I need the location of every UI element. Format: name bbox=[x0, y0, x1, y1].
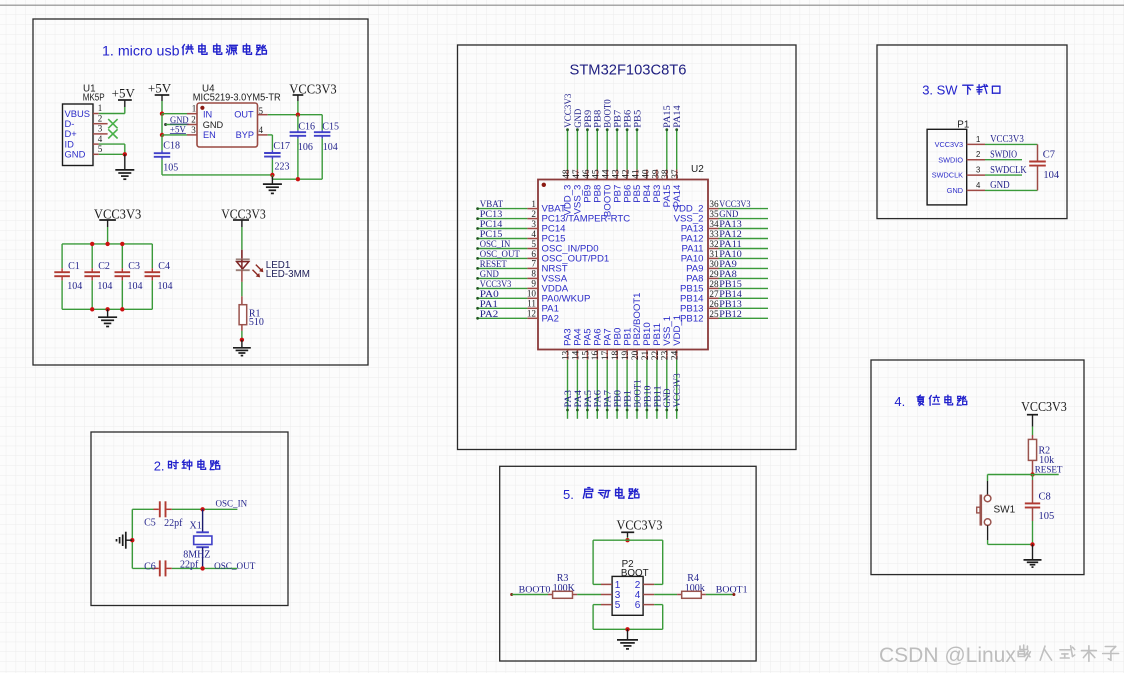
svg-text:CSDN @Linux: CSDN @Linux bbox=[879, 644, 1016, 667]
svg-text:GND: GND bbox=[719, 210, 738, 220]
svg-text:MK5P: MK5P bbox=[83, 92, 105, 103]
svg-text:15: 15 bbox=[581, 350, 591, 360]
svg-text:20: 20 bbox=[631, 350, 641, 360]
svg-text:32: 32 bbox=[709, 239, 719, 249]
svg-text:PB7: PB7 bbox=[614, 110, 624, 128]
svg-text:2.: 2. bbox=[154, 458, 165, 473]
svg-text:104: 104 bbox=[158, 281, 173, 292]
svg-text:PA8: PA8 bbox=[719, 270, 737, 280]
svg-text:EN: EN bbox=[203, 130, 216, 140]
svg-text:104: 104 bbox=[67, 281, 82, 292]
svg-text:16: 16 bbox=[591, 350, 601, 360]
svg-text:1. micro usb: 1. micro usb bbox=[102, 44, 180, 59]
svg-text:BYP: BYP bbox=[236, 130, 254, 140]
svg-text:PA5: PA5 bbox=[584, 390, 594, 408]
svg-text:34: 34 bbox=[709, 219, 719, 229]
svg-text:C5: C5 bbox=[144, 517, 156, 528]
svg-text:8: 8 bbox=[531, 269, 536, 279]
svg-text:PB15: PB15 bbox=[719, 280, 742, 290]
svg-text:PA10: PA10 bbox=[719, 250, 742, 260]
svg-text:+5V: +5V bbox=[112, 86, 136, 101]
svg-text:PB1: PB1 bbox=[624, 390, 634, 408]
svg-text:105: 105 bbox=[1039, 511, 1055, 522]
svg-text:1: 1 bbox=[976, 135, 980, 144]
svg-text:GND: GND bbox=[990, 180, 1010, 191]
svg-text:5: 5 bbox=[615, 600, 621, 611]
svg-text:35: 35 bbox=[709, 209, 719, 219]
svg-text:11: 11 bbox=[527, 299, 536, 309]
svg-text:STM32F103C8T6: STM32F103C8T6 bbox=[570, 63, 687, 79]
svg-text:GND: GND bbox=[65, 149, 86, 160]
svg-text:104: 104 bbox=[128, 281, 143, 292]
svg-text:29: 29 bbox=[709, 269, 719, 279]
svg-text:VCC3V3: VCC3V3 bbox=[289, 81, 337, 96]
svg-text:2: 2 bbox=[98, 113, 103, 123]
svg-text:C8: C8 bbox=[1039, 491, 1051, 502]
svg-text:PB11: PB11 bbox=[653, 385, 663, 407]
svg-text:PA2: PA2 bbox=[542, 313, 559, 324]
svg-text:33: 33 bbox=[709, 229, 719, 239]
svg-text:C6: C6 bbox=[144, 561, 156, 572]
svg-text:PB0: PB0 bbox=[614, 390, 624, 408]
svg-text:4: 4 bbox=[976, 181, 981, 190]
svg-text:VCC3V3: VCC3V3 bbox=[935, 140, 963, 149]
svg-text:+5V: +5V bbox=[170, 125, 186, 135]
svg-text:BOOT0: BOOT0 bbox=[604, 99, 614, 128]
svg-text:30: 30 bbox=[709, 259, 719, 269]
svg-text:PA3: PA3 bbox=[564, 390, 574, 408]
svg-text:PA1: PA1 bbox=[480, 300, 498, 310]
svg-text:14: 14 bbox=[571, 350, 581, 360]
svg-text:VCC3V3: VCC3V3 bbox=[480, 280, 512, 290]
svg-text:IN: IN bbox=[203, 109, 212, 119]
svg-text:17: 17 bbox=[601, 350, 611, 360]
svg-text:48: 48 bbox=[562, 169, 572, 179]
svg-text:1: 1 bbox=[98, 103, 103, 113]
svg-text:RESET: RESET bbox=[480, 260, 507, 270]
svg-text:PC15: PC15 bbox=[480, 230, 503, 240]
svg-text:5: 5 bbox=[531, 239, 536, 249]
svg-text:26: 26 bbox=[709, 299, 719, 309]
svg-text:3: 3 bbox=[976, 166, 980, 175]
svg-text:PB6: PB6 bbox=[624, 110, 634, 128]
svg-text:PB13: PB13 bbox=[719, 300, 742, 310]
svg-text:C2: C2 bbox=[98, 261, 110, 272]
svg-text:28: 28 bbox=[709, 279, 719, 289]
svg-text:GND: GND bbox=[663, 388, 673, 407]
svg-text:23: 23 bbox=[661, 350, 671, 360]
svg-text:PB9: PB9 bbox=[584, 110, 594, 128]
svg-text:VCC3V3: VCC3V3 bbox=[673, 373, 683, 407]
svg-text:OSC_OUT: OSC_OUT bbox=[480, 250, 520, 260]
svg-text:22pf: 22pf bbox=[164, 518, 183, 529]
svg-text:X1: X1 bbox=[190, 520, 202, 531]
svg-text:PA14: PA14 bbox=[672, 184, 683, 207]
svg-text:7: 7 bbox=[531, 259, 536, 269]
svg-text:106: 106 bbox=[298, 142, 313, 153]
svg-text:PB5: PB5 bbox=[633, 110, 643, 128]
svg-text:C18: C18 bbox=[163, 141, 180, 152]
svg-text:3: 3 bbox=[98, 124, 103, 134]
svg-text:13: 13 bbox=[561, 350, 571, 360]
svg-text:3: 3 bbox=[191, 125, 196, 135]
svg-text:45: 45 bbox=[592, 169, 602, 179]
svg-text:VDD_1: VDD_1 bbox=[672, 315, 683, 346]
svg-text:PA9: PA9 bbox=[719, 260, 737, 270]
svg-text:C3: C3 bbox=[128, 261, 140, 272]
svg-text:37: 37 bbox=[671, 169, 681, 179]
svg-text:PA4: PA4 bbox=[574, 390, 584, 408]
svg-text:3. SW: 3. SW bbox=[922, 83, 958, 98]
svg-text:12: 12 bbox=[527, 309, 537, 319]
svg-text:OSC_IN: OSC_IN bbox=[480, 240, 511, 250]
svg-text:PA15: PA15 bbox=[663, 105, 673, 128]
svg-text:GND: GND bbox=[203, 120, 224, 130]
svg-text:SWDCLK: SWDCLK bbox=[990, 165, 1027, 176]
svg-text:PA2: PA2 bbox=[480, 310, 499, 320]
svg-text:VCC3V3: VCC3V3 bbox=[719, 200, 750, 210]
svg-text:BOOT1: BOOT1 bbox=[716, 584, 748, 595]
svg-text:47: 47 bbox=[572, 169, 582, 179]
svg-text:22: 22 bbox=[651, 350, 661, 360]
svg-text:27: 27 bbox=[709, 289, 719, 299]
svg-text:C7: C7 bbox=[1043, 150, 1055, 161]
svg-text:C15: C15 bbox=[322, 122, 339, 133]
svg-text:3: 3 bbox=[531, 219, 536, 229]
svg-text:PA7: PA7 bbox=[604, 390, 614, 408]
svg-text:5.: 5. bbox=[563, 487, 574, 502]
svg-text:VBAT: VBAT bbox=[480, 200, 503, 210]
svg-text:105: 105 bbox=[163, 162, 178, 173]
svg-text:PA13: PA13 bbox=[719, 220, 742, 230]
svg-text:41: 41 bbox=[631, 169, 641, 179]
svg-text:10: 10 bbox=[527, 289, 537, 299]
svg-text:PA14: PA14 bbox=[673, 105, 683, 128]
svg-text:4: 4 bbox=[258, 125, 263, 135]
svg-text:24: 24 bbox=[671, 350, 681, 360]
svg-text:46: 46 bbox=[582, 169, 592, 179]
svg-text:PB10: PB10 bbox=[643, 385, 653, 407]
svg-text:510: 510 bbox=[249, 317, 264, 328]
svg-text:104: 104 bbox=[323, 142, 338, 153]
svg-text:SWDIO: SWDIO bbox=[938, 155, 963, 164]
svg-text:44: 44 bbox=[602, 169, 612, 179]
svg-text:36: 36 bbox=[709, 199, 719, 209]
svg-text:VCC3V3: VCC3V3 bbox=[1021, 399, 1067, 414]
svg-text:6: 6 bbox=[635, 600, 641, 611]
svg-text:C4: C4 bbox=[158, 261, 170, 272]
svg-text:LED-3MM: LED-3MM bbox=[266, 269, 310, 280]
svg-text:2: 2 bbox=[191, 115, 196, 125]
svg-text:42: 42 bbox=[622, 169, 632, 179]
svg-text:GND: GND bbox=[947, 186, 963, 195]
svg-text:GND: GND bbox=[480, 270, 499, 280]
svg-text:PB8: PB8 bbox=[594, 110, 604, 128]
svg-text:4: 4 bbox=[98, 134, 103, 144]
svg-text:U2: U2 bbox=[691, 164, 704, 175]
svg-text:C1: C1 bbox=[68, 261, 80, 272]
svg-text:SWDIO: SWDIO bbox=[990, 150, 1017, 161]
svg-text:9: 9 bbox=[531, 279, 536, 289]
svg-text:PA6: PA6 bbox=[594, 390, 604, 408]
svg-text:PA12: PA12 bbox=[719, 230, 742, 240]
svg-text:OSC_OUT: OSC_OUT bbox=[214, 561, 255, 572]
svg-text:C17: C17 bbox=[273, 141, 290, 152]
svg-text:PC14: PC14 bbox=[480, 220, 503, 230]
svg-text:223: 223 bbox=[275, 161, 290, 172]
svg-text:PA11: PA11 bbox=[719, 240, 742, 250]
svg-text:BOOT1: BOOT1 bbox=[633, 379, 643, 407]
svg-text:GND: GND bbox=[574, 109, 584, 128]
svg-text:1: 1 bbox=[192, 104, 197, 114]
svg-text:SW1: SW1 bbox=[994, 505, 1016, 516]
svg-text:OUT: OUT bbox=[234, 110, 254, 120]
svg-text:VCC3V3: VCC3V3 bbox=[617, 518, 663, 533]
svg-text:39: 39 bbox=[651, 169, 661, 179]
svg-text:4.: 4. bbox=[894, 394, 905, 409]
svg-text:19: 19 bbox=[621, 350, 631, 360]
svg-text:+5V: +5V bbox=[148, 80, 172, 95]
svg-text:PB12: PB12 bbox=[680, 313, 703, 324]
svg-text:5: 5 bbox=[98, 144, 103, 154]
svg-text:2: 2 bbox=[976, 150, 980, 159]
svg-text:1: 1 bbox=[531, 199, 536, 209]
svg-text:PA0: PA0 bbox=[480, 290, 499, 300]
svg-text:OSC_IN: OSC_IN bbox=[216, 498, 248, 509]
svg-text:BOOT: BOOT bbox=[621, 568, 649, 579]
svg-text:38: 38 bbox=[661, 169, 671, 179]
svg-text:104: 104 bbox=[97, 281, 112, 292]
svg-text:2: 2 bbox=[531, 209, 536, 219]
svg-text:25: 25 bbox=[709, 309, 719, 319]
svg-text:PC13: PC13 bbox=[480, 210, 503, 220]
svg-text:MIC5219-3.0YM5-TR: MIC5219-3.0YM5-TR bbox=[193, 92, 281, 103]
svg-text:104: 104 bbox=[1043, 170, 1060, 181]
svg-text:21: 21 bbox=[641, 350, 651, 360]
svg-text:PB14: PB14 bbox=[719, 290, 742, 300]
svg-text:SWDCLK: SWDCLK bbox=[932, 171, 963, 180]
svg-text:6: 6 bbox=[531, 249, 536, 259]
svg-text:VCC3V3: VCC3V3 bbox=[990, 134, 1024, 145]
svg-text:PB12: PB12 bbox=[719, 310, 742, 320]
svg-text:BOOT0: BOOT0 bbox=[519, 584, 551, 595]
svg-text:18: 18 bbox=[611, 350, 621, 360]
svg-text:40: 40 bbox=[641, 169, 651, 179]
svg-text:4: 4 bbox=[531, 229, 536, 239]
svg-text:22pf: 22pf bbox=[180, 559, 199, 570]
svg-text:31: 31 bbox=[709, 249, 719, 259]
svg-text:C16: C16 bbox=[298, 122, 315, 133]
svg-text:VCC3V3: VCC3V3 bbox=[564, 93, 574, 127]
svg-text:RESET: RESET bbox=[1035, 464, 1063, 475]
svg-text:43: 43 bbox=[612, 169, 622, 179]
